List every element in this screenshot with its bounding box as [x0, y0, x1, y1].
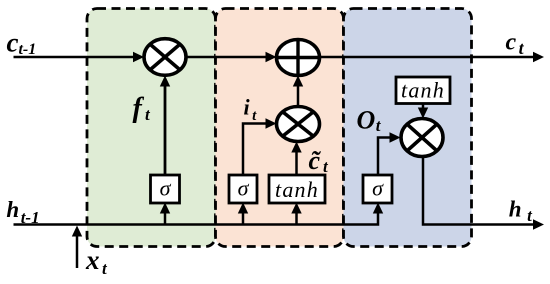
arrowhead into multiplier X2 left: [266, 118, 277, 128]
arrowhead x_t into h-line: [72, 226, 82, 237]
arrowhead into multiplier X2 bottom: [291, 142, 301, 153]
multiplier X1 (forget gate): [144, 39, 186, 76]
wire sigma U4 to multiplier X3 (O_t path): [378, 138, 392, 176]
arrowhead into tanh U3 bottom: [291, 203, 301, 214]
svg-text:σ: σ: [238, 176, 250, 201]
wire h-line bottom: [14, 207, 379, 225]
wire x_t input: [76, 234, 79, 268]
adder S1: [277, 40, 320, 76]
svg-text:σ: σ: [160, 176, 172, 201]
svg-text:σ: σ: [372, 176, 384, 201]
arrowhead into sigma U2 bottom: [238, 203, 248, 214]
wire c-line right segment: [320, 56, 535, 59]
multiplier X2: [277, 107, 320, 142]
svg-text:tanh: tanh: [401, 77, 445, 102]
wire multiplier X3 to h_t output: [423, 157, 534, 225]
wire c-line left segment: [14, 56, 136, 59]
sigma box U1: [151, 175, 180, 203]
arrowhead into multiplier X3 top: [418, 108, 428, 119]
wire h-line branch to sigma U1: [164, 211, 167, 225]
wire h-line branch to sigma U2: [242, 211, 245, 225]
sigma box U4: [363, 175, 392, 203]
arrowhead h_t output: [533, 219, 544, 229]
svg-text:tanh: tanh: [275, 177, 319, 202]
multiplier X3 (output gate): [401, 119, 443, 157]
wire multiplier X2 to adder S1: [297, 84, 300, 107]
arrowhead into sigma U1 bottom: [160, 203, 170, 214]
arrowhead into multiplier X1: [133, 52, 144, 62]
arrowhead into adder S1 bottom: [293, 76, 303, 87]
wire sigma U1 to multiplier X1: [164, 84, 167, 175]
wire tanh U3 to multiplier X2: [295, 150, 298, 175]
output gate region (blue dashed box): [344, 9, 472, 247]
wire h-line branch to tanh U3: [295, 211, 298, 225]
forget gate region (green dashed box): [87, 9, 216, 247]
arrowhead c_t output: [533, 52, 544, 62]
tanh box U3: [269, 175, 325, 203]
wire c-line middle segment: [186, 56, 269, 59]
cell update region (orange dashed box): [216, 9, 344, 247]
arrowhead into adder S1: [266, 52, 277, 62]
arrowhead into multiplier X3 left: [390, 132, 401, 142]
tanh box U5: [396, 77, 450, 104]
wire sigma U2 to multiplier X2 (i_t path): [243, 124, 268, 176]
wire tanh U5 to multiplier X3: [422, 104, 425, 113]
sigma box U2: [229, 175, 257, 203]
arrowhead into multiplier X1 bottom: [160, 76, 170, 87]
arrowhead into sigma U4 bottom: [373, 203, 383, 214]
